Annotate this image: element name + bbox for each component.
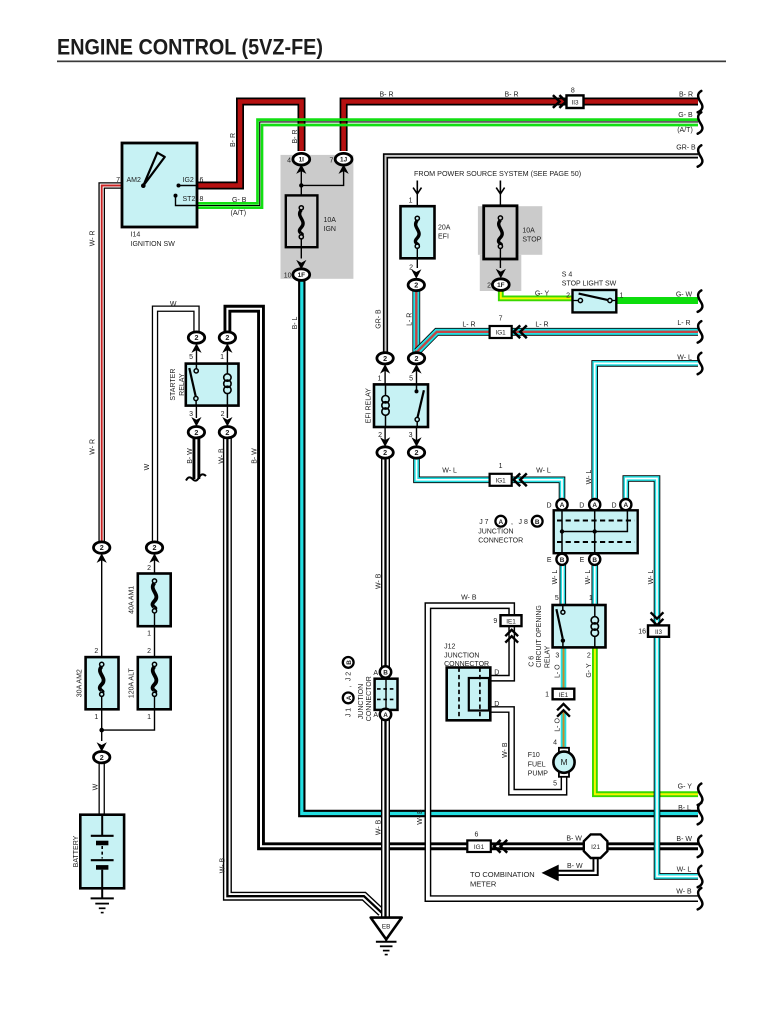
EFI relay output connector 2 (W-L) — [408, 427, 424, 458]
starter relay connector 2 (pin5) — [188, 332, 204, 364]
svg-text:2: 2 — [409, 264, 413, 271]
gray panel behind 10A STOP fuse block — [478, 206, 542, 255]
wire G-Y from fuse 1F to stop light switch — [501, 290, 573, 298]
junction connector pin A (left) — [556, 499, 567, 510]
svg-text:7: 7 — [329, 157, 333, 164]
svg-text:10A: 10A — [324, 217, 337, 224]
page edge curl W-L — [698, 353, 703, 374]
svg-text:B- W: B- W — [252, 448, 259, 464]
svg-text:G- Y: G- Y — [678, 784, 693, 791]
svg-text:B- R: B- R — [380, 92, 394, 99]
svg-text:30A AM2: 30A AM2 — [77, 669, 84, 697]
svg-text:W: W — [170, 301, 177, 308]
fuse 10A STOP — [484, 206, 517, 268]
svg-text:1: 1 — [620, 292, 624, 299]
wire L-O from circuit opening relay pin3 to IE1(1) — [561, 647, 567, 688]
wire W-B from IE1(9) loop to right edge bottom — [428, 606, 698, 899]
svg-text:W: W — [92, 783, 99, 790]
label J1/J2 junction connector rotated — [343, 657, 354, 668]
ground EB — [371, 918, 402, 955]
svg-text:EFI: EFI — [438, 234, 449, 241]
EFI relay output connector 2 (W-B) — [377, 427, 393, 458]
svg-text:2: 2 — [221, 411, 225, 418]
svg-text:CONNECTOR: CONNECTOR — [478, 537, 523, 544]
EFI relay — [374, 384, 428, 427]
svg-text:G- W: G- W — [676, 291, 693, 298]
svg-text:,: , — [346, 685, 353, 687]
fuse 10A IGN — [286, 185, 318, 258]
ignition switch I14 — [122, 143, 197, 227]
page edge curl GR-B — [698, 145, 703, 166]
junction connector J1 pin A — [380, 709, 391, 720]
svg-text:4: 4 — [287, 157, 291, 164]
wire B-R from fuse 1J to right edge via II3 — [344, 102, 698, 152]
svg-text:I14: I14 — [131, 232, 141, 239]
svg-text:B: B — [592, 557, 597, 564]
fuse 20A EFI — [401, 206, 435, 268]
svg-text:W- L: W- L — [442, 468, 457, 475]
svg-text:5: 5 — [409, 376, 413, 383]
svg-text:JUNCTION: JUNCTION — [444, 652, 479, 659]
svg-text:C 6: C 6 — [528, 656, 535, 667]
wire W-R from ignition AM2 to fuse 30A AM2 — [102, 186, 122, 543]
EFI relay input connector 2 (GR-B) — [377, 353, 393, 385]
svg-text:G- Y: G- Y — [535, 290, 550, 297]
svg-text:2: 2 — [225, 333, 229, 342]
svg-text:1I: 1I — [299, 157, 305, 164]
svg-text:IG1: IG1 — [474, 844, 485, 851]
arrow to combination meter — [542, 865, 559, 882]
svg-text:10A: 10A — [522, 228, 535, 235]
junction connector J12 — [447, 668, 491, 721]
page edge curl B-L — [698, 803, 703, 824]
svg-text:1F: 1F — [497, 282, 505, 289]
wire G-B (A/T) to right edge — [197, 125, 698, 208]
svg-text:1F: 1F — [298, 272, 306, 279]
svg-text:D: D — [546, 502, 551, 509]
svg-text:G- Y: G- Y — [586, 663, 593, 678]
svg-text:B- W: B- W — [566, 836, 582, 843]
svg-text:A: A — [592, 502, 597, 509]
wire L-O from IE1(1) to fuel pump pin4 — [561, 712, 567, 748]
circuit opening relay C6 — [553, 605, 606, 647]
svg-text:A: A — [623, 502, 628, 509]
starter relay — [186, 364, 239, 406]
wire W from starter relay pin5 to fuse 40A AM1 — [155, 309, 197, 543]
wire W-B from IE1(9) to J12 junction connector D — [490, 626, 511, 678]
svg-text:D: D — [494, 701, 499, 708]
junction connector J2 pin B — [380, 666, 391, 677]
svg-text:J12: J12 — [444, 644, 455, 651]
svg-text:W- L: W- L — [585, 570, 592, 585]
svg-text:B- W: B- W — [567, 863, 583, 870]
svg-text:PUMP: PUMP — [528, 771, 549, 778]
svg-text:(A/T): (A/T) — [677, 127, 693, 134]
fuse 120A ALT — [99, 657, 170, 732]
svg-text:A: A — [560, 502, 565, 509]
svg-text:M: M — [560, 757, 567, 767]
svg-text:1: 1 — [409, 197, 413, 204]
svg-text:B- R: B- R — [679, 91, 693, 98]
svg-text:120A ALT: 120A ALT — [129, 668, 136, 699]
starter relay connector 2 (pin3) — [188, 406, 204, 438]
battery — [80, 815, 124, 899]
wire W-L from EFI relay pin3 via IG1(1) to junction connector A — [417, 458, 563, 500]
power source arrow into 10A STOP — [496, 181, 504, 219]
junction connector J1/J2 — [375, 679, 398, 710]
svg-text:GR- B: GR- B — [376, 309, 383, 329]
svg-text:3: 3 — [555, 653, 559, 660]
fuse 10A IGN connector 1I — [293, 153, 310, 185]
svg-text:IGN: IGN — [324, 226, 336, 233]
svg-text:2: 2 — [225, 428, 229, 437]
svg-text:W- B: W- B — [218, 448, 225, 464]
svg-text:2: 2 — [415, 354, 419, 363]
svg-text:A: A — [373, 712, 378, 719]
svg-text:5: 5 — [555, 595, 559, 602]
wire W-B from EFI relay pin2 via J1/J2 to ground EB — [381, 458, 390, 918]
svg-text:2: 2 — [195, 333, 199, 342]
svg-text:IG1: IG1 — [495, 330, 506, 337]
svg-text:2: 2 — [587, 653, 591, 660]
wire B-L from fuse 1F to right edge — [302, 280, 698, 814]
page edge curl G-W — [698, 290, 703, 311]
wire W from fuses to battery — [98, 763, 104, 815]
connector IG1(6) with chevrons — [467, 840, 507, 853]
svg-text:B: B — [346, 660, 353, 665]
svg-text:II3: II3 — [655, 629, 663, 636]
connector 2 above 30A AM2 — [94, 542, 110, 657]
chevrons into II3 — [553, 95, 560, 108]
svg-text:S 4: S 4 — [562, 272, 573, 279]
svg-text:TO COMBINATION: TO COMBINATION — [470, 870, 535, 879]
svg-text:2: 2 — [100, 753, 104, 762]
svg-text:1: 1 — [589, 595, 593, 602]
svg-text:40A AM1: 40A AM1 — [129, 586, 136, 614]
svg-text:L- R: L- R — [677, 320, 690, 327]
svg-text:L- R: L- R — [462, 322, 475, 329]
page edge curl B-R — [698, 91, 703, 112]
svg-text:E: E — [580, 557, 585, 564]
page edge curl B-W — [698, 836, 703, 857]
page edge curl G-Y — [698, 784, 703, 805]
svg-text:J 7: J 7 — [479, 519, 488, 526]
svg-text:STOP LIGHT SW: STOP LIGHT SW — [562, 281, 617, 288]
svg-text:5: 5 — [553, 780, 557, 787]
svg-text:1: 1 — [147, 714, 151, 721]
junction connector pin B (left) — [556, 554, 567, 565]
power source arrow into 20A EFI — [413, 181, 421, 219]
svg-text:CIRCUIT OPENING: CIRCUIT OPENING — [536, 605, 543, 668]
svg-text:A: A — [373, 670, 378, 677]
starter relay connector 2 (pin1) — [219, 332, 235, 364]
wire W-L from right edge to junction connector middle A — [595, 363, 698, 499]
svg-text:W- L: W- L — [586, 470, 593, 485]
svg-text:5: 5 — [189, 354, 193, 361]
connector 2 above 40A AM1 — [146, 542, 162, 574]
wire B-R from ignition IG2 to fuse 1I — [197, 102, 302, 186]
junction connector pin A (right) — [620, 499, 631, 510]
svg-text:EFI RELAY: EFI RELAY — [366, 388, 373, 424]
svg-text:JUNCTION: JUNCTION — [478, 529, 513, 536]
svg-text:1: 1 — [545, 692, 549, 699]
connector II3 top — [567, 95, 584, 108]
svg-text:6: 6 — [475, 831, 479, 838]
svg-text:CONNECTOR: CONNECTOR — [444, 661, 489, 668]
wire G-W from stop light switch to right edge — [616, 297, 698, 304]
svg-text:7: 7 — [499, 316, 503, 323]
svg-text:2: 2 — [415, 448, 419, 457]
svg-text:ENGINE CONTROL (5VZ-FE): ENGINE CONTROL (5VZ-FE) — [57, 35, 323, 60]
svg-text:BATTERY: BATTERY — [73, 835, 80, 867]
connector IE1(1) with chevrons — [553, 689, 575, 717]
svg-text:2: 2 — [566, 292, 570, 299]
svg-text:A: A — [498, 519, 503, 526]
svg-text:ST2: ST2 — [183, 196, 196, 203]
svg-text:3: 3 — [409, 432, 413, 439]
stop light switch S4 — [573, 290, 617, 312]
svg-text:1: 1 — [220, 354, 224, 361]
svg-text:W- R: W- R — [89, 230, 96, 246]
wire W-L from junction connector right A via II3(16) to right edge — [626, 479, 698, 877]
connector IG1(1) with chevrons — [490, 473, 527, 486]
svg-text:IG2: IG2 — [183, 177, 194, 184]
svg-text:8: 8 — [571, 87, 575, 94]
svg-text:10: 10 — [284, 273, 292, 280]
svg-text:J 1: J 1 — [346, 708, 353, 717]
svg-text:B- L: B- L — [292, 316, 299, 329]
svg-text:J 2: J 2 — [346, 672, 353, 681]
svg-text:9: 9 — [493, 618, 497, 625]
svg-text:AM2: AM2 — [127, 177, 142, 184]
svg-text:A: A — [346, 695, 353, 700]
svg-text:B- L: B- L — [678, 805, 691, 812]
svg-text:2: 2 — [147, 565, 151, 572]
fuse 1F connector (IGN) — [293, 260, 310, 281]
fuse 10A IGN connector 1J — [299, 153, 352, 187]
connector II3(16) — [648, 625, 669, 636]
svg-text:8: 8 — [200, 196, 204, 203]
svg-text:IG1: IG1 — [495, 478, 506, 485]
svg-text:1: 1 — [499, 463, 503, 470]
svg-text:B- R: B- R — [292, 130, 299, 144]
svg-text:W- B: W- B — [219, 857, 226, 873]
svg-text:E: E — [547, 557, 552, 564]
page edge curl G-B/(A/T) — [698, 112, 703, 133]
svg-text:B- R: B- R — [230, 133, 237, 147]
fuse 30A AM2 — [86, 657, 119, 741]
svg-text:(A/T): (A/T) — [231, 210, 247, 217]
svg-text:W- B: W- B — [417, 809, 424, 825]
svg-text:GR- B: GR- B — [676, 144, 696, 151]
svg-text:20A: 20A — [438, 225, 451, 232]
svg-text:2: 2 — [153, 543, 157, 552]
svg-text:JUNCTION: JUNCTION — [358, 684, 365, 719]
svg-text:IGNITION SW: IGNITION SW — [131, 241, 176, 248]
fuse 40A AM1 — [138, 574, 171, 658]
svg-text:W- L: W- L — [648, 570, 655, 585]
wire GR-B from right edge to EFI relay pin1 — [386, 156, 699, 354]
starter relay connector 2 (pin2) — [219, 406, 235, 438]
svg-text:W- B: W- B — [502, 742, 509, 758]
svg-text:RELAY: RELAY — [179, 373, 186, 396]
svg-text:L- O: L- O — [555, 664, 562, 678]
connector IG1(7) with chevrons — [490, 325, 527, 338]
svg-text:B: B — [535, 519, 540, 526]
svg-text:G- B: G- B — [678, 112, 693, 119]
svg-text:METER: METER — [470, 880, 497, 889]
svg-text:1: 1 — [378, 376, 382, 383]
svg-text:B: B — [560, 557, 565, 564]
wire W-B from J12 junction connector D to fuel pump pin5 — [490, 710, 564, 793]
junction connector J7/J8 — [554, 510, 638, 553]
svg-text:W- L: W- L — [677, 867, 692, 874]
svg-text:W- B: W- B — [676, 889, 692, 896]
svg-text:FROM POWER SOURCE SYSTEM (SEE: FROM POWER SOURCE SYSTEM (SEE PAGE 50) — [414, 169, 581, 178]
connector IE1(9) with chevrons — [501, 615, 522, 642]
svg-text:IE1: IE1 — [506, 619, 516, 626]
wire W-L from junction connector B to circuit opening relay pin5 — [559, 565, 566, 606]
svg-text:L- R: L- R — [535, 322, 548, 329]
wire W-L from junction connector B to circuit opening relay pin1 — [591, 565, 598, 606]
EFI relay input connector 2 (L-R) — [408, 353, 424, 385]
junction connector pin A (middle) — [589, 499, 600, 510]
ground below battery — [91, 898, 114, 912]
fuel pump F10 motor — [553, 748, 574, 777]
svg-text:B- W: B- W — [676, 836, 692, 843]
svg-text:3: 3 — [189, 411, 193, 418]
svg-text:F10: F10 — [528, 752, 540, 759]
svg-text:2: 2 — [147, 648, 151, 655]
svg-text:1: 1 — [147, 630, 151, 637]
svg-text:A: A — [383, 712, 388, 719]
svg-text:2: 2 — [94, 648, 98, 655]
svg-text:2: 2 — [414, 281, 418, 290]
svg-text:6: 6 — [200, 177, 204, 184]
svg-text:1: 1 — [94, 714, 98, 721]
svg-text:16: 16 — [638, 629, 646, 636]
wire B-W from I21 to combination meter — [556, 857, 596, 873]
wire L-R from 20A EFI fuse to EFI relay pin5 — [412, 291, 420, 353]
svg-text:STOP: STOP — [522, 237, 541, 244]
wire G-B from ignition ST2 to right edge — [197, 120, 698, 204]
connector I21 octagon — [584, 834, 608, 858]
svg-text:D: D — [494, 670, 499, 677]
svg-text:2: 2 — [194, 428, 198, 437]
svg-text:,: , — [511, 519, 513, 526]
svg-text:W- L: W- L — [677, 354, 692, 361]
fuse 1F connector (STOP) — [492, 269, 509, 291]
svg-text:L- R: L- R — [407, 313, 414, 326]
svg-text:W- L: W- L — [536, 468, 551, 475]
svg-text:D: D — [579, 502, 584, 509]
wire L-R branch to IG1(7) and right edge — [417, 332, 698, 352]
svg-text:L- O: L- O — [554, 718, 561, 732]
svg-text:G- B: G- B — [232, 197, 247, 204]
svg-text:W- B: W- B — [461, 595, 477, 602]
svg-text:W- L: W- L — [552, 570, 559, 585]
page edge curl W-B — [698, 888, 703, 909]
svg-text:II3: II3 — [571, 99, 579, 106]
svg-text:2: 2 — [378, 432, 382, 439]
chevrons into II3(16) — [651, 612, 664, 618]
svg-text:7: 7 — [116, 177, 120, 184]
page edge curl W-L bottom — [698, 866, 703, 887]
svg-text:2: 2 — [487, 283, 491, 290]
svg-text:STARTER: STARTER — [170, 369, 177, 401]
connector 2 above battery — [94, 742, 110, 763]
svg-text:I21: I21 — [591, 844, 600, 851]
svg-text:W- R: W- R — [89, 439, 96, 455]
svg-text:2: 2 — [383, 354, 387, 363]
wire G-Y from circuit opening relay pin2 to right edge — [595, 647, 698, 794]
svg-text:2: 2 — [100, 543, 104, 552]
svg-text:W: W — [144, 463, 151, 470]
svg-text:J 8: J 8 — [519, 519, 528, 526]
svg-text:B- R: B- R — [505, 92, 519, 99]
title — [57, 35, 726, 63]
svg-text:1J: 1J — [340, 157, 348, 164]
svg-text:CONNECTOR: CONNECTOR — [366, 676, 373, 721]
wire W-B from starter relay pin2 to ground EB — [227, 438, 381, 913]
svg-text:EB: EB — [382, 923, 391, 930]
svg-text:2: 2 — [383, 448, 387, 457]
gray panel behind 10A IGN fuse block — [281, 155, 354, 279]
svg-text:FUEL: FUEL — [528, 761, 546, 768]
svg-text:W- B: W- B — [375, 573, 382, 589]
wire B-W stub below starter relay pin3 — [192, 438, 200, 479]
svg-text:B: B — [383, 670, 388, 677]
svg-text:IE1: IE1 — [559, 692, 569, 699]
junction connector pin B (middle) — [589, 554, 600, 565]
page edge curl L-R — [698, 321, 703, 342]
svg-text:RELAY: RELAY — [544, 645, 551, 668]
20A EFI output connector 2 — [408, 269, 424, 290]
wire B-W bus from starter relay pin1 to right edge — [227, 309, 698, 847]
svg-text:W- B: W- B — [375, 819, 382, 835]
svg-text:4: 4 — [553, 739, 557, 746]
svg-text:D: D — [612, 502, 617, 509]
svg-text:B- W: B- W — [187, 448, 194, 464]
